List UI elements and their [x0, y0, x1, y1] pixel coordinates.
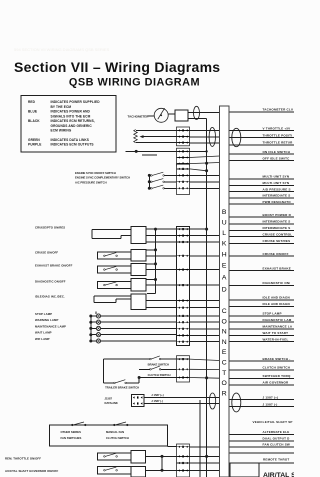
- svg-text:PURPLE: PURPLE: [28, 143, 42, 147]
- svg-text:AUX/TAL SHAFT GOVERNOR ON/OFF: AUX/TAL SHAFT GOVERNOR ON/OFF: [5, 469, 58, 473]
- svg-text:V THROTTLE +5V: V THROTTLE +5V: [263, 126, 291, 130]
- sync switch 3: [151, 185, 165, 189]
- wiper arrow: [140, 135, 144, 138]
- svg-text:REM. THROTTLE ON/OFF: REM. THROTTLE ON/OFF: [5, 456, 41, 460]
- svg-text:INDICATES POWER AND: INDICATES POWER AND: [51, 110, 91, 114]
- svg-text:L: L: [222, 230, 226, 237]
- stub to common: [146, 263, 156, 265]
- svg-text:OFF IDLE SWITC: OFF IDLE SWITC: [263, 156, 291, 160]
- cruise common bend into idle/diag box: [147, 293, 156, 295]
- switched torque wire: [139, 377, 176, 379]
- cruise/pto box: [131, 226, 146, 243]
- svg-text:D: D: [222, 286, 227, 293]
- ground bus vertical: [206, 119, 208, 477]
- aux wire to block: [146, 469, 177, 471]
- svg-text:BRAKE SWITCH -: BRAKE SWITCH -: [263, 357, 291, 361]
- tach wire to bulkhead: [188, 112, 220, 114]
- cruise/pto out wires: [146, 228, 177, 230]
- svg-text:SWITCHED TORQ: SWITCHED TORQ: [263, 374, 292, 378]
- throttle wires to block: [136, 129, 176, 131]
- svg-text:BLACK: BLACK: [28, 119, 40, 123]
- svg-text:A/C PRESSURE SWITCH: A/C PRESSURE SWITCH: [75, 180, 107, 184]
- svg-text:MAINTENANCE LA: MAINTENANCE LA: [263, 324, 293, 328]
- cruise/pto pair bracket: [92, 229, 131, 231]
- connector rows cruise: [177, 228, 190, 243]
- svg-text:H: H: [222, 251, 227, 258]
- vertical wire left of bar: [199, 400, 201, 477]
- remote throttle wire right: [229, 452, 294, 454]
- svg-text:CLUTCH SWITCH: CLUTCH SWITCH: [148, 373, 171, 377]
- svg-text:O: O: [222, 380, 227, 387]
- lamp block-to-bar wire: [190, 341, 220, 343]
- lamp common vertical: [90, 316, 92, 341]
- connector block idle: [177, 148, 190, 166]
- idle wires to bus and bulkhead: [190, 150, 207, 152]
- lamp wire right STOP LAMP: [229, 315, 294, 317]
- connector block bottom: [177, 444, 190, 477]
- svg-text:QSB WIRING DIAGRAM: QSB WIRING DIAGRAM: [69, 77, 200, 89]
- stop lamp feed stub: [95, 312, 97, 315]
- J1587 pin B: [133, 402, 135, 404]
- connector rows lamps: [177, 315, 190, 343]
- exhaust switch: [104, 266, 118, 270]
- svg-text:K: K: [222, 240, 227, 247]
- lamp block-to-bar wire: [190, 334, 220, 336]
- bulkhead connector bar: [220, 106, 230, 477]
- svg-text:TACHOMETER CLU: TACHOMETER CLU: [263, 108, 294, 112]
- tall connector block cruise-to-lamps: [177, 226, 190, 345]
- svg-text:THROTTLE POSITI: THROTTLE POSITI: [263, 133, 293, 137]
- svg-text:B: B: [222, 209, 227, 216]
- lamp wire right MAINTENANCE LA: [229, 328, 294, 330]
- off idle wire right: [229, 160, 294, 162]
- stub to common: [146, 249, 156, 251]
- svg-text:J 1587 (+): J 1587 (+): [151, 393, 163, 397]
- svg-text:R: R: [222, 390, 227, 397]
- J1587 pin A: [133, 396, 135, 398]
- svg-text:J 1587 (-): J 1587 (-): [263, 402, 278, 406]
- cruise on/off harness rect: [98, 252, 132, 259]
- svg-text:A/D PRESSURE S: A/D PRESSURE S: [263, 187, 291, 191]
- tachometer gauge: [154, 108, 168, 122]
- throttle wires right of bulkhead: [229, 130, 294, 132]
- cruise on/off switch: [104, 253, 118, 257]
- cruise on/off wires: [146, 255, 177, 257]
- svg-text:C: C: [222, 308, 227, 315]
- svg-text:IDLE AND DIAGN: IDLE AND DIAGN: [263, 302, 290, 306]
- trailer brake bottom wire: [103, 382, 114, 384]
- svg-text:ENGINE SYNC COMPLEMENTARY SWIT: ENGINE SYNC COMPLEMENTARY SWITCH: [75, 176, 130, 180]
- svg-text:EXHAUST BRAKE: EXHAUST BRAKE: [263, 266, 291, 270]
- svg-text:BRAKE SWITCH: BRAKE SWITCH: [148, 363, 169, 367]
- legend box: [21, 96, 116, 153]
- sync bracket vertical: [148, 175, 150, 190]
- bottom block wires to bar: [190, 446, 220, 448]
- svg-text:REMOTE THROT: REMOTE THROT: [263, 458, 289, 462]
- exhaust harness rect: [98, 266, 132, 273]
- svg-text:VEHICLE/TAIL SHAFT SP: VEHICLE/TAIL SHAFT SP: [253, 420, 293, 424]
- svg-text:MAINTENANCE LAMP: MAINTENANCE LAMP: [35, 324, 66, 328]
- cruise wires right of bulkhead: [229, 236, 294, 238]
- svg-text:DUAL OUTPUT D: DUAL OUTPUT D: [263, 437, 291, 441]
- idle/diag pair bracket: [94, 295, 131, 297]
- sender box: [175, 110, 188, 121]
- J1587 wires to bar: [144, 397, 220, 399]
- svg-text:N: N: [222, 329, 227, 336]
- svg-text:EXHAUST BRAKE ON/OFF: EXHAUST BRAKE ON/OFF: [35, 264, 73, 268]
- svg-text:INDICATES POWER SUPPLIED: INDICATES POWER SUPPLIED: [51, 100, 101, 104]
- svg-text:IDLE/DIAG INC./DEC.: IDLE/DIAG INC./DEC.: [35, 295, 65, 299]
- lamp block-to-bar wire: [190, 328, 220, 330]
- connector rows cruise on/off: [177, 255, 190, 257]
- svg-text:CRUISE CONTROL: CRUISE CONTROL: [263, 232, 293, 236]
- idle/diag box: [131, 294, 146, 310]
- throttle potentiometer coil: [134, 130, 138, 143]
- svg-text:J1587: J1587: [105, 396, 113, 400]
- idle/diag wires out: [146, 300, 177, 302]
- legend text: [28, 100, 100, 146]
- svg-text:MULTI-UNIT SYN: MULTI-UNIT SYN: [263, 174, 290, 178]
- lamp WAIT LAMP: [35, 331, 177, 337]
- svg-text:BLUE: BLUE: [28, 110, 37, 114]
- svg-text:FAN SWITCHES: FAN SWITCHES: [61, 436, 82, 440]
- svg-text:MULTI-UNIT SYN: MULTI-UNIT SYN: [263, 181, 290, 185]
- svg-text:DIAGNOSTIC LAM: DIAGNOSTIC LAM: [263, 318, 292, 322]
- multi-unit wires right: [229, 178, 294, 180]
- diagnostic box: [131, 279, 146, 292]
- sync switch 2: [151, 179, 165, 183]
- connector rows exhaust: [177, 269, 190, 271]
- svg-text:SIGNALS INTO THE ECM: SIGNALS INTO THE ECM: [51, 114, 91, 118]
- alternate wire right: [229, 434, 294, 436]
- svg-text:T: T: [222, 370, 226, 377]
- J1587 connector box: [132, 395, 145, 407]
- svg-text:GROUNDS AND GENERIC: GROUNDS AND GENERIC: [51, 124, 93, 128]
- rem throttle box: [131, 451, 146, 464]
- svg-text:WIF LAMP: WIF LAMP: [35, 337, 50, 341]
- svg-text:DIAGNOSTIC ON/: DIAGNOSTIC ON/: [263, 281, 291, 285]
- intermediate wire right 1: [229, 223, 294, 225]
- throttle wires to bulkhead: [190, 129, 220, 131]
- tach oval connector: [194, 106, 200, 119]
- tachometer wire right: [229, 111, 294, 113]
- cruise wires right of block: [190, 228, 207, 230]
- fan clutch wire right: [229, 446, 294, 448]
- svg-text:E: E: [222, 349, 227, 356]
- svg-text:TRAILER BRAKE SWITCH: TRAILER BRAKE SWITCH: [105, 385, 139, 389]
- svg-text:BOOST POWER R: BOOST POWER R: [263, 213, 292, 217]
- sync switch wires: [165, 174, 177, 176]
- brake switch: [150, 356, 161, 360]
- J1587 oval left: [209, 393, 215, 409]
- rem throttle wire to block: [146, 455, 177, 457]
- svg-text:CRUISE ON/OFF: CRUISE ON/OFF: [263, 252, 289, 256]
- svg-text:ECM WIRING: ECM WIRING: [51, 129, 72, 133]
- svg-text:WAIT LAMP: WAIT LAMP: [35, 331, 52, 335]
- exhaust wires: [146, 269, 177, 271]
- brake block wires to bar: [190, 359, 220, 360]
- svg-text:BY THE ECM: BY THE ECM: [51, 105, 72, 109]
- svg-text:ENGINE SYNC ON/OFF SWITCH: ENGINE SYNC ON/OFF SWITCH: [75, 171, 116, 175]
- fan box switch 1: [73, 422, 84, 425]
- svg-text:INTERMEDIATE S: INTERMEDIATE S: [263, 193, 291, 197]
- bulkhead connector letters: [222, 209, 227, 397]
- svg-text:CRUISE SET/RES: CRUISE SET/RES: [263, 239, 291, 243]
- oval connector right of bulkhead: [232, 128, 241, 146]
- svg-text:OTHER SERIES: OTHER SERIES: [61, 430, 82, 434]
- intermediate wire right 2: [229, 229, 294, 231]
- svg-text:IDLE AND DIAGN: IDLE AND DIAGN: [263, 296, 290, 300]
- lamp wire right WATER-IN-FUEL: [229, 341, 294, 343]
- idle stub wire: [142, 154, 157, 156]
- oval connector left of bulkhead: [209, 127, 215, 146]
- svg-text:INTERMEDIATE S: INTERMEDIATE S: [263, 219, 291, 223]
- rem throttle harness rect: [98, 453, 132, 460]
- svg-text:CRUISE/PTO ON/RES: CRUISE/PTO ON/RES: [35, 226, 65, 230]
- J1587 oval right: [232, 393, 241, 412]
- lamp MAINTENANCE LAMP: [35, 324, 177, 330]
- svg-text:Section VII – Wiring Diagrams: Section VII – Wiring Diagrams: [14, 59, 220, 75]
- svg-text:J 1587 (+): J 1587 (+): [263, 395, 279, 399]
- aux governor switch: [104, 467, 118, 471]
- lamp block-to-bar wire: [190, 321, 220, 323]
- lamp wire right DIAGNOSTIC LAM: [229, 321, 294, 323]
- svg-text:J 1587 (-): J 1587 (-): [151, 399, 163, 403]
- svg-text:GREEN: GREEN: [28, 138, 40, 142]
- svg-text:FAN CLUTCH SW: FAN CLUTCH SW: [263, 443, 290, 447]
- on idle wire right: [229, 153, 294, 155]
- svg-text:E: E: [222, 262, 227, 269]
- sync switch 1: [151, 172, 165, 176]
- lamp STOP LAMP: [35, 312, 177, 318]
- svg-text:CLUTCH SWITCH: CLUTCH SWITCH: [106, 436, 129, 440]
- remote throttle box right: [230, 463, 259, 477]
- diagnostic harness rect: [98, 281, 132, 288]
- svg-text:N: N: [222, 339, 227, 346]
- brake wires right: [229, 360, 294, 362]
- fan box text: [61, 430, 129, 440]
- svg-text:RED: RED: [28, 100, 36, 104]
- connector block sync: [177, 164, 190, 194]
- connector rows idle/diag: [177, 300, 190, 309]
- svg-text:ON IDLE SWITCH: ON IDLE SWITCH: [263, 150, 291, 154]
- trailer brake switch: [114, 380, 127, 384]
- svg-text:INDICATES ECM OUTPUTS: INDICATES ECM OUTPUTS: [51, 143, 94, 147]
- svg-text:DIAGNOSTIC ON/OFF: DIAGNOSTIC ON/OFF: [35, 280, 66, 284]
- connector rows diagnostic: [177, 284, 190, 286]
- bottom common vertical: [161, 456, 163, 470]
- svg-text:PWM DESIGNATO: PWM DESIGNATO: [263, 200, 292, 204]
- trailer brake riser: [138, 378, 140, 383]
- connector block throttle: [177, 127, 190, 146]
- svg-text:WATER-IN-FUEL: WATER-IN-FUEL: [263, 337, 289, 341]
- svg-text:INDICATES DATA LINKS: INDICATES DATA LINKS: [51, 138, 90, 142]
- svg-text:TACHOMETER: TACHOMETER: [128, 115, 150, 119]
- idle wire with junction: [126, 150, 177, 152]
- aux box: [131, 467, 146, 477]
- svg-text:AIR/TAL SHAFT: AIR/TAL SHAFT: [263, 472, 294, 477]
- svg-text:WARNING LAMP: WARNING LAMP: [35, 318, 58, 322]
- diagnostic wires: [146, 284, 177, 286]
- svg-text:C: C: [222, 359, 227, 366]
- connector block brake: [177, 356, 190, 382]
- exhaust box: [131, 264, 146, 276]
- cruise common vertical: [155, 229, 157, 293]
- svg-text:STOP LAMP: STOP LAMP: [263, 312, 282, 316]
- boost power wire right: [229, 216, 294, 218]
- diagnostic switch: [104, 282, 118, 286]
- lamp WIF LAMP: [35, 337, 177, 343]
- svg-text:INTERMEDIATE S: INTERMEDIATE S: [263, 226, 291, 230]
- svg-text:THROTTLE RETUR: THROTTLE RETUR: [263, 140, 294, 144]
- svg-text:MANUAL FAN: MANUAL FAN: [106, 430, 124, 434]
- wire label-to-gauge: [148, 115, 155, 117]
- fan switches box: [50, 425, 168, 446]
- fan box output wire: [168, 446, 177, 448]
- dual output wire right: [229, 440, 294, 442]
- lamp WARNING LAMP: [35, 318, 177, 324]
- clutch switch: [150, 366, 161, 370]
- sync wires to bulkhead: [190, 169, 207, 171]
- rem throttle switch: [104, 453, 118, 457]
- J1587 wires right: [229, 399, 294, 401]
- svg-text:AIR GOVERNOR: AIR GOVERNOR: [263, 381, 290, 385]
- svg-text:O: O: [222, 318, 227, 325]
- svg-text:594 SECTION VII WIRING DIAG: 594 SECTION VII WIRING DIAGRAMS QSB SERI…: [14, 47, 110, 52]
- fan box switch 2: [115, 422, 126, 425]
- stub to common: [146, 279, 156, 281]
- svg-text:U: U: [222, 219, 227, 226]
- gauge-to-box wire: [168, 113, 175, 115]
- svg-text:ALTERNATE ELE: ALTERNATE ELE: [263, 430, 290, 434]
- svg-text:DATALINK: DATALINK: [105, 401, 118, 405]
- wire from remote box: [259, 462, 294, 464]
- svg-text:CLUTCH SWITCH: CLUTCH SWITCH: [263, 366, 291, 370]
- lamp block-to-bar wire: [190, 315, 220, 317]
- trailer brake feed vertical: [102, 359, 104, 383]
- svg-text:STOP LAMP: STOP LAMP: [35, 312, 52, 316]
- cruise on/off box: [131, 250, 146, 262]
- tach return wire to bus: [188, 118, 207, 120]
- svg-text:INDICATES ECM RETURNS,: INDICATES ECM RETURNS,: [51, 119, 95, 123]
- aux harness rect: [98, 467, 132, 474]
- svg-text:A: A: [222, 274, 227, 281]
- lamp wire right WAIT TO START: [229, 334, 294, 336]
- brake switch wire: [103, 358, 150, 360]
- svg-text:CRUISE ON/OFF: CRUISE ON/OFF: [35, 251, 58, 255]
- svg-text:WAIT TO START: WAIT TO START: [263, 331, 289, 335]
